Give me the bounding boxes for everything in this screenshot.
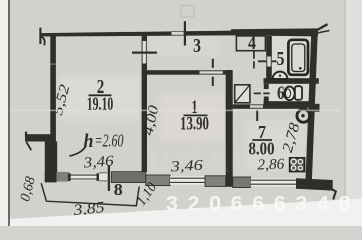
svg-text:320666348: 320666348: [166, 192, 360, 216]
